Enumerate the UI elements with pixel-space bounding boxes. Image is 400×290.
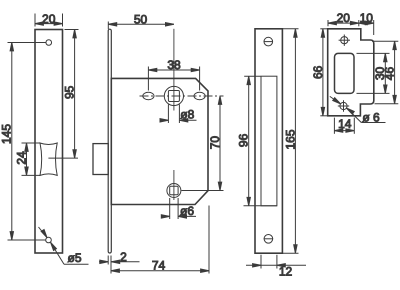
- vertical centerline through spindle: [173, 29, 175, 111]
- faceplate bottom screw hole: [46, 237, 52, 243]
- dimension 38 (between ovals): [148, 58, 199, 90]
- faceplate edge-on strip: [108, 29, 111, 253]
- faceplate front view (view 1): [35, 30, 63, 254]
- view3 bottom screw hole: [264, 235, 273, 244]
- dimension 14 (window width): [334, 117, 354, 134]
- svg-text:165: 165: [283, 129, 297, 149]
- dimension 70 (hole to hole): [182, 96, 224, 191]
- svg-text:ø 6: ø 6: [362, 110, 380, 124]
- dimension ø8: [160, 105, 197, 124]
- svg-text:95: 95: [63, 85, 77, 99]
- strike plate front view (view 4): [328, 29, 374, 116]
- right oval hole: [194, 92, 205, 99]
- svg-text:ø5: ø5: [67, 251, 81, 265]
- dimension 20 (view4): [328, 11, 359, 26]
- svg-text:ø6: ø6: [180, 204, 194, 218]
- latch bolt (protruding): [93, 144, 108, 175]
- lock body outline: [111, 78, 208, 204]
- left oval hole: [143, 92, 154, 99]
- svg-text:10: 10: [360, 11, 374, 25]
- bottom key hole circle: [167, 184, 181, 198]
- svg-text:20: 20: [42, 12, 56, 26]
- svg-text:20: 20: [337, 11, 351, 25]
- view3 top screw hole: [264, 37, 273, 46]
- svg-text:38: 38: [167, 58, 181, 72]
- svg-text:2: 2: [120, 250, 127, 264]
- strike box side view (view 3): [255, 29, 282, 253]
- dimension 66 (view4 height): [311, 29, 329, 116]
- dimension 95 (view1 right): [63, 30, 79, 159]
- svg-text:ø8: ø8: [180, 107, 194, 121]
- latch cutout (spool shape): [40, 143, 57, 175]
- dimension 46 (tab height): [372, 41, 398, 104]
- square spindle hole ø8: [168, 91, 179, 102]
- svg-text:70: 70: [208, 136, 222, 150]
- dimension 30 (window height): [357, 53, 390, 93]
- dimension 145 (view1 left): [0, 43, 46, 241]
- svg-text:96: 96: [237, 133, 251, 147]
- view4 bottom screw hole: [338, 100, 349, 111]
- svg-text:50: 50: [134, 12, 148, 26]
- faceplate top screw hole: [46, 40, 52, 46]
- dimension 165 (overall height): [282, 29, 298, 253]
- dimension ø6 (view2 bottom hole): [161, 198, 196, 219]
- dimension 74 (body width): [111, 206, 209, 274]
- svg-text:14: 14: [338, 117, 352, 131]
- dimension 24 (latch cutout height): [14, 143, 40, 175]
- svg-text:74: 74: [152, 259, 166, 273]
- svg-text:145: 145: [0, 124, 14, 144]
- horizontal centerline through holes: [140, 95, 224, 97]
- svg-text:12: 12: [279, 264, 293, 278]
- dimension 12 (pocket width): [246, 255, 306, 279]
- dimension 20 (view1 top): [35, 12, 63, 27]
- spindle boss circle: [164, 86, 183, 105]
- svg-text:24: 24: [14, 151, 28, 165]
- square key hole ø6: [170, 186, 178, 194]
- svg-text:66: 66: [311, 65, 325, 79]
- pocket inner rect: [261, 76, 277, 206]
- dimension 10 (tab): [359, 11, 374, 35]
- dimension 96 (pocket): [237, 76, 277, 206]
- vertical centerline bottom hole: [173, 170, 175, 200]
- svg-text:46: 46: [383, 67, 397, 81]
- latch window: [335, 53, 355, 93]
- leader + label ø6 (view4): [330, 96, 386, 124]
- dimension 2 (faceplate thickness): [99, 250, 140, 265]
- latch centerline extension: [48, 157, 78, 159]
- leader + label ø5 (bottom hole): [39, 227, 89, 265]
- view4 top screw hole: [339, 35, 350, 46]
- dimension 50 (view2 top): [108, 12, 174, 29]
